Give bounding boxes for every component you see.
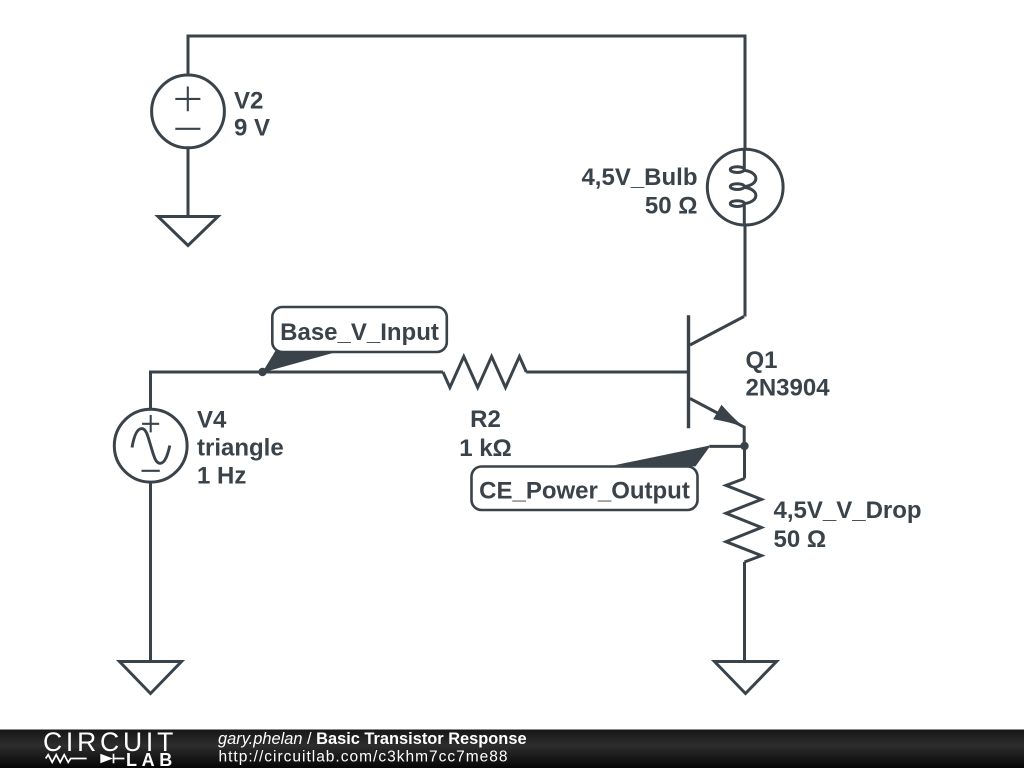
callout Base_V_Input — [262, 307, 447, 373]
resistor R2 zigzag — [443, 357, 526, 388]
label R2 1 kOhm — [459, 406, 512, 462]
node Base_V_Input — [258, 368, 266, 376]
CircuitLab logo — [43, 727, 177, 768]
wire V2 top to bulb rail — [188, 36, 745, 149]
wire bulb to Q1 collector — [744, 225, 747, 317]
svg-text:50 Ω: 50 Ω — [774, 526, 827, 553]
svg-text:Q1: Q1 — [746, 347, 778, 374]
voltage source V2 — [152, 75, 225, 148]
callout CE_Power_Output — [472, 446, 746, 510]
ground GND (output) — [715, 662, 777, 694]
label Q1 2N3904 — [746, 347, 831, 402]
label 4,5V_Bulb 50 ohm — [581, 164, 697, 220]
svg-text:50 Ω: 50 Ω — [645, 193, 698, 220]
footer bar — [0, 730, 1024, 768]
label V2 9 V — [234, 88, 270, 142]
wire node CE to resistor drop — [743, 446, 746, 479]
svg-text:triangle: triangle — [197, 435, 284, 462]
wire V2 to ground — [187, 148, 190, 216]
svg-text:V2: V2 — [234, 88, 263, 115]
svg-text:9 V: 9 V — [234, 115, 270, 142]
ground GND (V4) — [120, 662, 182, 694]
wire V4 top lead to node — [151, 372, 263, 409]
svg-text:4,5V_Bulb: 4,5V_Bulb — [581, 164, 697, 191]
svg-text:gary.phelan / Basic Transistor: gary.phelan / Basic Transistor Response — [218, 730, 527, 748]
ground GND (V2) — [158, 217, 218, 246]
wire V4 to ground — [149, 484, 152, 662]
label 4,5V_V_Drop 50 ohm — [774, 497, 922, 553]
svg-text:V4: V4 — [197, 407, 227, 434]
svg-text:http://circuitlab.com/c3khm7cc: http://circuitlab.com/c3khm7cc7me88 — [219, 749, 509, 766]
svg-text:CE_Power_Output: CE_Power_Output — [479, 478, 690, 505]
lamp 4,5V_Bulb — [707, 149, 783, 225]
resistor 4,5V_V_Drop zigzag — [726, 479, 762, 563]
svg-text:2N3904: 2N3904 — [746, 375, 831, 402]
label V4 triangle 1 Hz — [197, 407, 284, 490]
svg-text:R2: R2 — [470, 406, 501, 433]
wire resistor drop to ground — [743, 562, 746, 661]
svg-text:LAB: LAB — [126, 750, 177, 768]
wire R2 to Q1 base — [526, 371, 687, 374]
transistor Q1 — [689, 315, 745, 446]
node CE_Power_Output — [740, 442, 748, 450]
svg-text:1 Hz: 1 Hz — [197, 463, 246, 490]
svg-text:1 kΩ: 1 kΩ — [459, 435, 512, 462]
svg-text:4,5V_V_Drop: 4,5V_V_Drop — [774, 497, 922, 524]
svg-text:Base_V_Input: Base_V_Input — [280, 319, 439, 346]
voltage source V4 — [114, 409, 187, 482]
wire node to R2 — [263, 371, 444, 374]
